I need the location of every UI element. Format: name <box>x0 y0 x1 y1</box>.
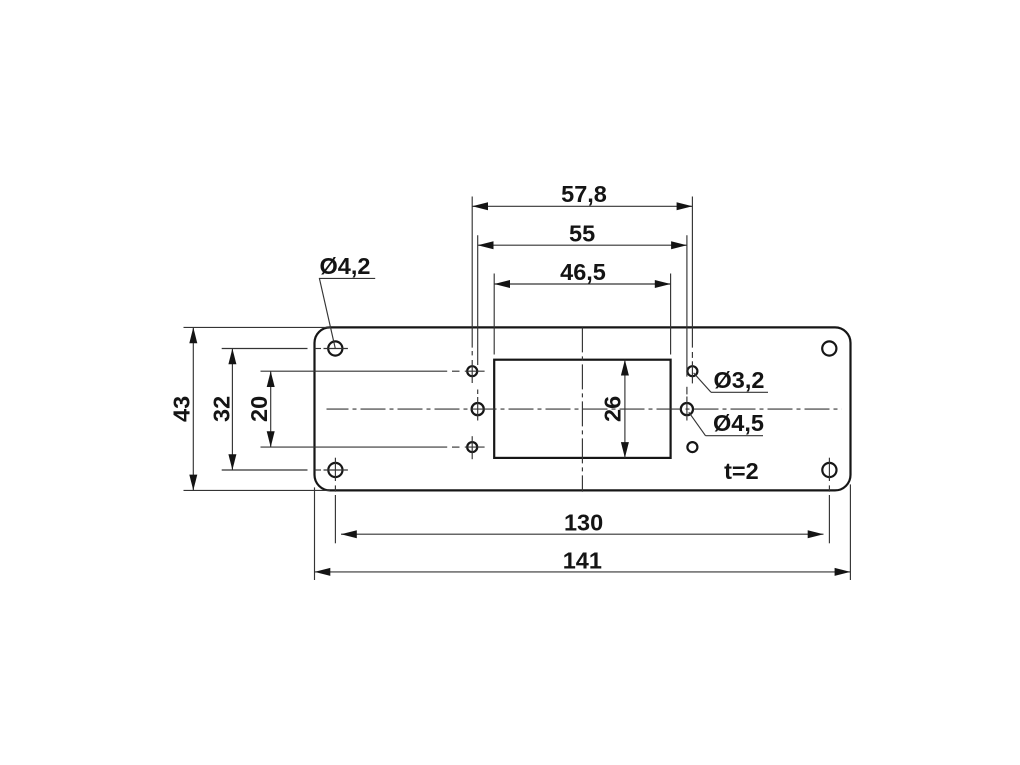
svg-text:t=2: t=2 <box>724 458 759 484</box>
line through top small holes / 20 top extension <box>261 370 485 372</box>
extension line 55 right <box>686 235 688 420</box>
dimension line 46.5 <box>494 280 670 288</box>
extension line 46.5 right <box>670 274 672 355</box>
svg-text:32: 32 <box>208 396 234 422</box>
dimension line 130 <box>341 530 824 538</box>
label O3,2 underline <box>711 391 768 393</box>
extension line 57.8 left <box>471 197 473 384</box>
label O3,2 leader <box>694 373 711 392</box>
svg-text:55: 55 <box>569 221 595 247</box>
svg-text:46,5: 46,5 <box>560 259 606 285</box>
dimension line 20 <box>267 371 275 447</box>
label O4,2 leader <box>319 278 335 348</box>
label O4,2 underline <box>319 277 375 279</box>
line through bottom small holes / 20 bottom extension <box>261 446 485 448</box>
corner hole top-left <box>328 341 342 355</box>
small hole top-right <box>687 366 697 376</box>
svg-text:141: 141 <box>563 548 602 574</box>
small hole bottom-left <box>467 442 477 452</box>
svg-text:130: 130 <box>564 510 603 536</box>
dimension line 43 <box>189 327 197 490</box>
centerline through top corner holes / 32 top extension <box>222 348 348 350</box>
extension line 46.5 left <box>493 274 495 355</box>
small hole top-left <box>467 366 477 376</box>
rectangular cutout <box>494 360 670 458</box>
dimension line 55 <box>478 241 687 249</box>
dimension line 57.8 <box>472 202 692 210</box>
label O4,5 underline <box>706 435 764 437</box>
vertical cross bottom-left small hole <box>471 436 473 459</box>
svg-text:26: 26 <box>600 396 626 422</box>
extension line 130 left <box>334 458 336 544</box>
extension line 57.8 right <box>691 197 693 384</box>
dimension line 26 <box>621 360 629 458</box>
extension line 43 bottom <box>184 489 331 491</box>
dimension line 32 <box>228 349 236 471</box>
svg-text:Ø4,2: Ø4,2 <box>320 253 371 279</box>
corner hole bottom-right <box>822 463 836 477</box>
horizontal centerline <box>327 408 842 410</box>
svg-text:43: 43 <box>169 396 195 422</box>
svg-text:Ø3,2: Ø3,2 <box>714 367 765 393</box>
extension line 141 left <box>314 487 316 580</box>
corner hole top-right <box>822 341 836 355</box>
svg-text:57,8: 57,8 <box>561 181 607 207</box>
svg-text:Ø4,5: Ø4,5 <box>713 410 764 436</box>
extension line 130 right <box>828 458 830 544</box>
dimension line 141 <box>315 568 851 576</box>
label O4,5 leader <box>689 412 706 436</box>
plate outline <box>315 327 851 490</box>
vertical centerline <box>581 327 583 491</box>
centerline through bottom corner holes / 32 bottom extension <box>222 469 348 471</box>
extension line 43 top <box>184 326 331 328</box>
middle hole right <box>681 403 693 415</box>
small hole bottom-right <box>687 442 697 452</box>
extension line 141 right <box>849 484 851 580</box>
corner hole bottom-left <box>328 463 342 477</box>
extension line 55 left <box>477 235 479 420</box>
svg-text:20: 20 <box>246 396 272 422</box>
middle hole left <box>472 403 484 415</box>
